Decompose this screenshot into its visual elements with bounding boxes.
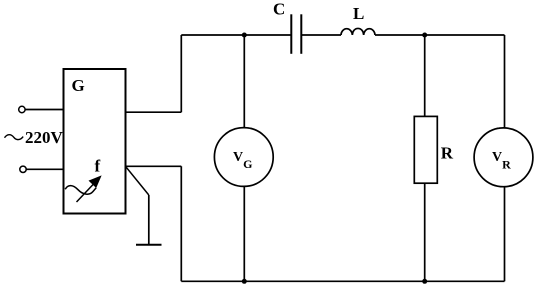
frequency wave symbol <box>65 186 96 195</box>
svg-text:C: C <box>273 0 285 19</box>
wire input lower <box>26 168 63 170</box>
inductor L <box>341 28 375 35</box>
voltmeter VR <box>474 128 533 187</box>
wire top rail right segment <box>375 34 505 36</box>
capacitor C <box>291 14 301 54</box>
wire top rail left segment <box>181 34 291 36</box>
node junction top VG <box>242 33 247 38</box>
wire right vertical lower (VR to bottom rail) <box>504 187 506 282</box>
svg-text:VG: VG <box>233 150 252 171</box>
wire generator lower output horizontal <box>126 165 182 167</box>
node junction bottom R <box>422 279 427 284</box>
AC tilde symbol <box>5 135 24 140</box>
wire ground vertical <box>148 195 150 245</box>
wire R branch upper <box>424 35 426 116</box>
svg-text:G: G <box>72 76 85 95</box>
voltmeter VG <box>214 128 273 187</box>
wire VG branch upper <box>243 35 245 128</box>
wire R branch lower <box>424 183 426 281</box>
wire ground diagonal <box>126 166 149 195</box>
svg-text:f: f <box>95 157 101 176</box>
svg-text:220V: 220V <box>25 128 64 147</box>
generator box G <box>64 69 126 214</box>
node junction top R <box>422 33 427 38</box>
wire right vertical upper (to VR) <box>504 35 506 128</box>
wire generator upper output vertical <box>180 35 182 112</box>
frequency arrow shaft <box>77 184 95 203</box>
wire generator upper output horizontal <box>126 111 182 113</box>
node junction bottom VG <box>242 279 247 284</box>
terminal upper <box>19 106 25 112</box>
svg-text:L: L <box>353 4 364 23</box>
terminal lower <box>20 166 26 172</box>
wire bottom rail <box>181 280 504 282</box>
wire generator lower output vertical <box>180 166 182 281</box>
frequency arrow head <box>90 177 101 188</box>
ground <box>136 244 162 246</box>
wire top rail middle segment <box>301 34 341 36</box>
wire input upper <box>25 109 63 111</box>
resistor R <box>414 116 437 183</box>
svg-text:R: R <box>441 144 454 163</box>
svg-text:VR: VR <box>492 150 511 172</box>
wire VG branch lower <box>243 186 245 281</box>
